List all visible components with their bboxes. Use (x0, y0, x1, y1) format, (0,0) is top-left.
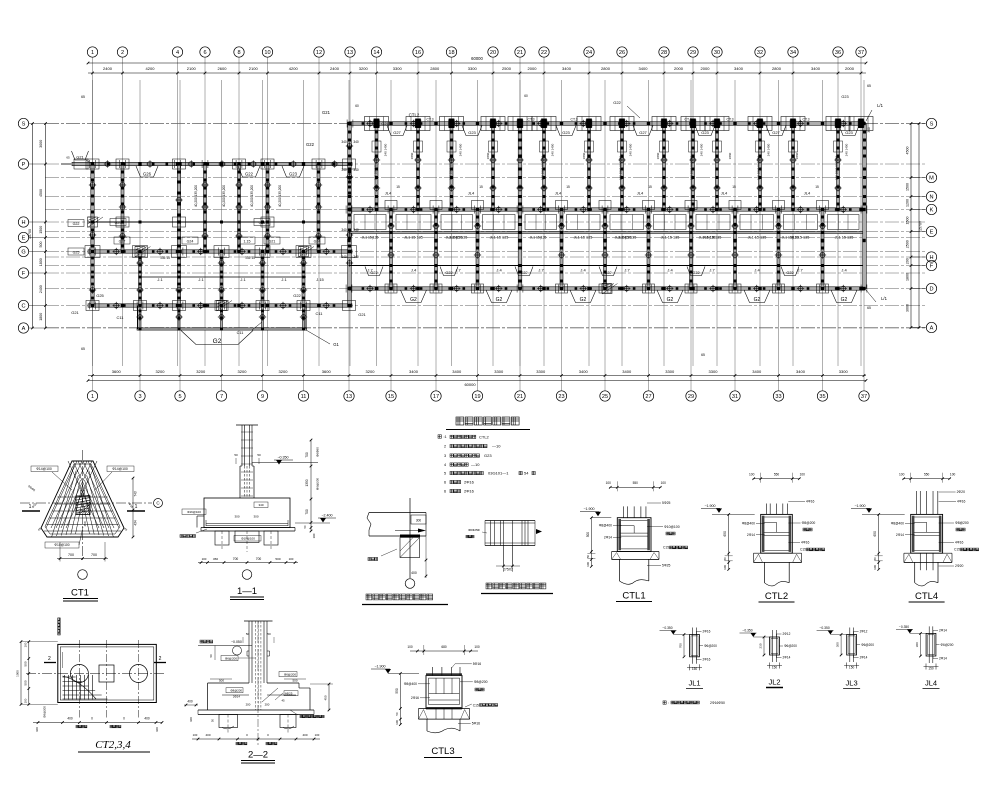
svg-text:Φ6@200: Φ6@200 (861, 643, 874, 647)
svg-text:N: N (929, 195, 933, 201)
svg-text:Φ14@100: Φ14@100 (112, 467, 128, 471)
svg-text:3: 3 (138, 394, 141, 400)
svg-text:2400: 2400 (39, 285, 43, 293)
svg-text:M: M (929, 176, 934, 182)
svg-text:50: 50 (395, 712, 399, 716)
column upper right x544 (543, 124, 546, 210)
svg-text:CTL2: CTL2 (479, 434, 490, 439)
svg-text:12: 12 (316, 50, 322, 56)
column upper right x664 (663, 124, 666, 210)
svg-text:2Φ20: 2Φ20 (955, 564, 963, 568)
svg-text:3300: 3300 (839, 369, 849, 374)
svg-text:C15: C15 (800, 548, 806, 552)
column upper x122.5 (121, 164, 124, 252)
column upper x239 (238, 164, 241, 252)
svg-text:5Φ25: 5Φ25 (662, 564, 670, 568)
right dimension chain (910, 124, 912, 328)
svg-text:JL1 15 135: JL1 15 135 (748, 236, 767, 240)
svg-text:C11: C11 (315, 311, 323, 316)
anchor detail pile bar (409, 498, 411, 578)
svg-text:JL4: JL4 (637, 191, 644, 196)
svg-text:2Φ16: 2Φ16 (464, 489, 475, 494)
cap box left of axis 1 on P (74, 159, 88, 169)
svg-text:27: 27 (645, 394, 651, 400)
svg-text:G22: G22 (613, 100, 621, 105)
svg-text:G22: G22 (293, 293, 301, 298)
svg-text:1860: 1860 (410, 152, 414, 159)
CT1 dimensions (57, 558, 108, 560)
svg-text:5Φ16: 5Φ16 (473, 662, 481, 666)
column upper right x451.5 (450, 124, 453, 210)
column axis 1 (91, 164, 94, 306)
svg-text:CTL1: CTL1 (622, 591, 645, 602)
svg-text:240 1860 860 240: 240 1860 860 240 (374, 156, 378, 181)
svg-text:G23: G23 (845, 130, 853, 135)
svg-text:G23: G23 (289, 172, 298, 177)
svg-text:3400: 3400 (452, 369, 462, 374)
svg-text:16: 16 (415, 50, 421, 56)
svg-text:150: 150 (928, 666, 934, 670)
svg-text:2: 2 (444, 445, 446, 449)
left axis circles (18, 118, 28, 128)
svg-text:650: 650 (723, 531, 727, 537)
top axis circles (87, 47, 97, 57)
svg-text:G21: G21 (381, 121, 389, 126)
beam mark flags under D (401, 290, 427, 303)
svg-text:G22: G22 (604, 271, 611, 275)
svg-text:743: 743 (134, 491, 138, 497)
CT1 rebar lattice (57, 496, 107, 498)
svg-text:275X2: 275X2 (503, 568, 513, 572)
detail JL3 (847, 635, 857, 656)
svg-text:2Φ12: 2Φ12 (783, 632, 791, 636)
right axis circles (926, 118, 936, 128)
svg-text:Φ8@200: Φ8@200 (474, 680, 488, 684)
svg-text:Φ8@400: Φ8@400 (599, 524, 612, 528)
svg-text:Φ10@100: Φ10@100 (664, 525, 680, 529)
svg-text:2Φ14: 2Φ14 (233, 695, 241, 699)
svg-text:CT2,3,4: CT2,3,4 (95, 739, 131, 751)
svg-text:CT.3: CT.3 (803, 118, 810, 122)
svg-text:30: 30 (714, 50, 720, 56)
svg-text:2Φ16: 2Φ16 (703, 630, 711, 634)
1-1 dims bottom (198, 562, 298, 564)
svg-text:2000: 2000 (674, 66, 684, 71)
CT2 hatch (63, 676, 76, 678)
protrusion left edge (137, 306, 139, 330)
svg-text:2Φ16: 2Φ16 (703, 657, 711, 661)
svg-text:Φ8@400: Φ8@400 (891, 522, 904, 526)
svg-text:G21: G21 (71, 310, 79, 315)
svg-text:340: 340 (353, 140, 359, 144)
CT1 centerlines (20, 502, 152, 504)
svg-text:100: 100 (23, 642, 27, 647)
svg-text:240 1400: 240 1400 (767, 143, 771, 156)
column protrusion x262.5 (262, 306, 264, 330)
svg-text:6: 6 (444, 490, 446, 494)
cap rects on G line (85, 246, 100, 258)
svg-text:300: 300 (836, 642, 840, 647)
svg-text:1800: 1800 (39, 313, 43, 321)
svg-text:340: 340 (353, 255, 359, 259)
svg-text:G2: G2 (754, 297, 761, 303)
svg-text:240 1400: 240 1400 (384, 143, 388, 156)
svg-text:34: 34 (790, 50, 796, 56)
svg-text:A: A (22, 326, 26, 332)
CT2 left dims (28, 642, 30, 705)
junction detail (main-secondary cap beam) (485, 520, 535, 522)
svg-text:J.7: J.7 (455, 268, 461, 273)
svg-text:135 15: 135 15 (245, 256, 255, 260)
svg-text:3600: 3600 (322, 369, 332, 374)
svg-text:2000: 2000 (701, 66, 711, 71)
svg-text:Φ6@200: Φ6@200 (941, 643, 954, 647)
pile cap outline rects on S line (365, 117, 389, 131)
svg-text:JL1 15 135: JL1 15 135 (404, 236, 423, 240)
svg-text:2Φ14: 2Φ14 (939, 657, 947, 661)
svg-text:450: 450 (83, 521, 87, 526)
svg-text:Φ6@200: Φ6@200 (316, 478, 320, 490)
svg-text:100: 100 (606, 481, 612, 485)
svg-text:11: 11 (301, 394, 307, 400)
svg-text:JL2: JL2 (768, 678, 780, 687)
svg-text:C11: C11 (237, 331, 244, 335)
svg-text:1860: 1860 (582, 152, 586, 159)
svg-text:15700: 15700 (919, 221, 923, 231)
svg-text:2Φ14: 2Φ14 (896, 533, 904, 537)
svg-text:—10: —10 (471, 462, 480, 467)
svg-text:2: 2 (159, 656, 162, 662)
svg-text:1800: 1800 (39, 258, 43, 266)
column upper right x693 (692, 124, 695, 210)
svg-text:650: 650 (873, 531, 877, 537)
svg-text:3400: 3400 (562, 66, 572, 71)
column upper right x838 (837, 124, 840, 210)
svg-text::: : (668, 701, 669, 705)
svg-text:−0.350: −0.350 (662, 626, 672, 630)
column lower right x605 (604, 210, 607, 289)
svg-text:135 15: 135 15 (160, 256, 170, 260)
svg-text:65: 65 (867, 306, 871, 310)
beam J-row right (349, 232, 865, 234)
svg-text:240 1860 860 240: 240 1860 860 240 (619, 156, 623, 181)
svg-text:C11: C11 (116, 315, 124, 320)
svg-text:700: 700 (256, 557, 262, 561)
svg-text:G22: G22 (245, 172, 254, 177)
column upper right x717 (716, 124, 719, 210)
svg-text:G2: G2 (667, 297, 674, 303)
svg-text:G2: G2 (841, 297, 848, 303)
column lower x262.5 (261, 252, 264, 306)
svg-text:G2: G2 (213, 338, 222, 345)
column lower right x822.5 (821, 210, 824, 289)
svg-text:240 1400: 240 1400 (459, 143, 463, 156)
svg-text:C15: C15 (473, 703, 479, 707)
svg-text:340: 340 (341, 168, 347, 172)
svg-text:G26: G26 (143, 172, 152, 177)
svg-text:240 1860 860 240: 240 1860 860 240 (449, 156, 453, 181)
CT1 axis circle C (154, 499, 163, 508)
svg-text:G27: G27 (119, 239, 126, 243)
svg-text:450: 450 (213, 557, 218, 561)
svg-text:4200: 4200 (289, 66, 299, 71)
svg-text:—10: —10 (492, 444, 501, 449)
svg-text:CT.3: CT.3 (727, 118, 734, 122)
svg-text:2Φ14: 2Φ14 (939, 628, 947, 632)
svg-text:S: S (22, 122, 26, 128)
svg-text:G23: G23 (484, 453, 492, 458)
svg-text:3000: 3000 (39, 140, 43, 148)
svg-text:15: 15 (479, 185, 483, 189)
svg-text:F: F (22, 271, 26, 277)
svg-text:340: 340 (341, 140, 347, 144)
svg-text:100: 100 (193, 733, 198, 737)
svg-text:2Φ14: 2Φ14 (604, 536, 612, 540)
svg-text:Φ8@400: Φ8@400 (742, 522, 755, 526)
svg-text:100: 100 (661, 481, 667, 485)
svg-text:−1.900: −1.900 (704, 504, 715, 508)
svg-text:550: 550 (774, 473, 780, 477)
svg-text:−1.900: −1.900 (374, 665, 385, 669)
top dimension chain individual (88, 72, 866, 74)
2-2 wings (208, 682, 249, 684)
big G2 flag under left protrusion (181, 331, 253, 345)
svg-text:1500: 1500 (906, 183, 910, 191)
pile symbols (105, 162, 110, 167)
svg-text:37: 37 (858, 50, 864, 56)
svg-text:100: 100 (950, 473, 956, 477)
svg-text:3200: 3200 (279, 369, 289, 374)
svg-text:4Φ16: 4Φ16 (801, 541, 809, 545)
svg-text:35: 35 (819, 394, 825, 400)
svg-text:25: 25 (602, 394, 608, 400)
svg-text:2000: 2000 (845, 66, 855, 71)
svg-text:0: 0 (123, 717, 125, 721)
svg-text:J.4: J.4 (754, 268, 760, 273)
svg-text:36: 36 (835, 50, 841, 56)
column lower x140 (139, 252, 142, 306)
svg-text:400: 400 (144, 717, 150, 721)
svg-text:400: 400 (187, 700, 193, 704)
bay boxes below K line right block (354, 215, 386, 230)
svg-text:2500: 2500 (906, 240, 910, 248)
svg-text:65: 65 (81, 95, 85, 99)
svg-text:21: 21 (517, 50, 523, 56)
bottom dimension chain individual (88, 375, 866, 377)
svg-text:29: 29 (688, 394, 694, 400)
svg-text:4500: 4500 (39, 189, 43, 197)
svg-text:CTL4: CTL4 (915, 591, 938, 602)
svg-text:31: 31 (732, 394, 738, 400)
column protrusion x140 (139, 306, 141, 330)
svg-text:54: 54 (524, 471, 529, 476)
svg-text:18: 18 (448, 50, 454, 56)
svg-text:300: 300 (915, 642, 919, 647)
svg-text:G21: G21 (358, 312, 366, 317)
svg-text:37: 37 (861, 394, 867, 400)
svg-text:60: 60 (355, 104, 359, 108)
svg-text:6: 6 (203, 50, 206, 56)
svg-text:2Φ16: 2Φ16 (411, 696, 419, 700)
svg-text:5: 5 (178, 394, 181, 400)
svg-text:JL1 15 135: JL1 15 135 (661, 236, 680, 240)
svg-text:Φ8@200: Φ8@200 (230, 689, 242, 693)
detail CTL1 (609, 486, 661, 488)
column lower right x477.5 (476, 210, 479, 289)
svg-text:100: 100 (723, 565, 727, 570)
svg-text:C15: C15 (954, 548, 960, 552)
svg-text:2400: 2400 (103, 66, 113, 71)
svg-text:G22: G22 (692, 271, 699, 275)
2-2 slab piles (198, 709, 314, 711)
svg-text:3400: 3400 (796, 369, 806, 374)
svg-text:G22: G22 (520, 271, 527, 275)
svg-text:3400: 3400 (811, 66, 821, 71)
beam axis S right block (349, 122, 865, 126)
column upper right x376.5 (375, 124, 378, 210)
svg-text:2100: 2100 (187, 66, 197, 71)
2-2 level mark (200, 640, 213, 643)
svg-text:P: P (22, 162, 26, 168)
beam mark flags under S (387, 126, 407, 136)
svg-text:20: 20 (490, 50, 496, 56)
1-1 bottom slab (201, 527, 295, 529)
svg-text:40,200 135,200: 40,200 135,200 (194, 185, 198, 207)
svg-text:65: 65 (66, 156, 70, 160)
1-1 footing (204, 498, 290, 528)
beam axis H left thin (88, 221, 352, 223)
svg-text:40,200 135,200: 40,200 135,200 (278, 185, 282, 207)
svg-text:JL4: JL4 (468, 191, 475, 196)
svg-text:J.4: J.4 (411, 268, 417, 273)
svg-text:JL4: JL4 (721, 191, 728, 196)
svg-text:JL4: JL4 (555, 191, 562, 196)
svg-text:17: 17 (433, 394, 439, 400)
svg-text:240 1400: 240 1400 (845, 143, 849, 156)
svg-text:D: D (929, 287, 933, 293)
svg-text:150: 150 (692, 667, 698, 671)
1-1 right dim stack (310, 440, 312, 531)
column lower right x648.5 (647, 210, 650, 289)
small cap rects on upper band verticals (372, 141, 381, 152)
svg-text:CT.3: CT.3 (427, 118, 434, 122)
svg-text:1350: 1350 (305, 479, 309, 486)
svg-text:2800: 2800 (601, 66, 611, 71)
svg-text:240 1400: 240 1400 (629, 143, 633, 156)
anchor detail (end pile rebar) (369, 512, 426, 514)
detail CT2,3,4 plan (58, 644, 157, 702)
svg-text:15: 15 (388, 394, 394, 400)
svg-text:1860: 1860 (795, 152, 799, 159)
detail CT1 triangular pile cap (41, 461, 124, 537)
svg-text:5Φ16: 5Φ16 (472, 722, 480, 726)
svg-text:340: 340 (341, 255, 347, 259)
svg-text:Φ8@400: Φ8@400 (404, 682, 417, 686)
svg-text:1800: 1800 (906, 273, 910, 281)
svg-text:100: 100 (586, 562, 590, 567)
svg-text:60: 60 (524, 94, 528, 98)
svg-text:3300: 3300 (393, 66, 403, 71)
svg-text:1: 1 (91, 50, 94, 56)
svg-text:24: 24 (586, 50, 592, 56)
svg-text:65: 65 (701, 353, 705, 357)
svg-text:−0.350: −0.350 (899, 625, 909, 629)
svg-text:CT.4: CT.4 (685, 118, 692, 122)
svg-text:−0.050: −0.050 (231, 640, 242, 644)
cap rects on K line (385, 201, 397, 210)
column lower right x561.5 (560, 210, 563, 289)
svg-text:JL1: JL1 (688, 679, 700, 688)
column upper right x622 (621, 124, 624, 210)
svg-text:100: 100 (873, 565, 877, 570)
detail JL4 (926, 633, 936, 656)
svg-text:JL1 15 135: JL1 15 135 (449, 236, 468, 240)
bottom axis circles (87, 391, 97, 401)
svg-text:550: 550 (633, 481, 639, 485)
CT2 bottom dims (33, 722, 162, 724)
svg-text:50: 50 (873, 557, 877, 561)
svg-text:4: 4 (444, 463, 446, 467)
1-1 C15 cushion text (180, 535, 196, 538)
column protrusion x303.5 (303, 306, 305, 330)
svg-text:100: 100 (202, 557, 207, 561)
svg-text:22: 22 (541, 50, 547, 56)
column lower right x391 (390, 210, 393, 289)
svg-text:3400: 3400 (639, 66, 649, 71)
svg-text:7: 7 (220, 394, 223, 400)
svg-text:G25: G25 (96, 293, 104, 298)
svg-text:4Φ16: 4Φ16 (957, 500, 965, 504)
svg-text:28: 28 (661, 50, 667, 56)
beam mark flags under P (136, 166, 158, 177)
column axis 13 (348, 124, 352, 306)
svg-text:300: 300 (234, 515, 239, 519)
column upper right x760 (759, 124, 762, 210)
svg-text:100: 100 (23, 698, 27, 703)
svg-text:Φ6@200: Φ6@200 (784, 644, 797, 648)
svg-text:G24: G24 (187, 239, 194, 243)
column lower right x436 (435, 210, 438, 289)
svg-text:J.1: J.1 (240, 277, 246, 282)
svg-text:G24: G24 (314, 239, 321, 243)
svg-text:450: 450 (324, 695, 328, 700)
svg-text:2Φ14: 2Φ14 (747, 533, 755, 537)
svg-text:JL1 15|135: JL1 15|135 (530, 236, 547, 240)
svg-text:J.4: J.4 (580, 268, 586, 273)
svg-text:65: 65 (867, 84, 871, 88)
column lower x303.5 (302, 252, 305, 306)
svg-text:−0.350: −0.350 (277, 456, 288, 460)
notes list (438, 435, 441, 438)
svg-text:300: 300 (253, 515, 258, 519)
2-2 bottom dims (192, 738, 320, 740)
svg-text:240 1860 860 240: 240 1860 860 240 (757, 156, 761, 181)
svg-text:1000: 1000 (16, 670, 20, 677)
svg-text:1—1: 1—1 (237, 586, 257, 597)
svg-text:L/1: L/1 (877, 103, 883, 108)
svg-text:0: 0 (91, 717, 93, 721)
svg-text:JL1 15 135: JL1 15 135 (703, 236, 722, 240)
svg-text:Φ10@100: Φ10@100 (54, 543, 69, 547)
svg-text:Φ16@100: Φ16@100 (187, 510, 201, 514)
svg-text:3200: 3200 (359, 66, 369, 71)
svg-text:1500: 1500 (906, 217, 910, 225)
svg-text:1: 1 (135, 504, 138, 510)
svg-text:21: 21 (517, 394, 523, 400)
beam axis G left block (88, 250, 352, 253)
beam axis F right thin (349, 265, 865, 267)
svg-text::1: :1 (444, 435, 447, 439)
